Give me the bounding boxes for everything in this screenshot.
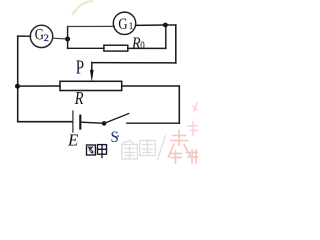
wire: G1 right lead: [136, 24, 166, 26]
wire: bottom run to battery: [18, 121, 73, 123]
wire: battery to switch: [81, 122, 104, 123]
wire: right rail down: [178, 86, 180, 123]
wire: R0 left lead: [68, 47, 104, 49]
galvanometer G1: [113, 12, 135, 34]
wire: left rail: [17, 36, 19, 122]
node A (junction dot): [65, 37, 70, 42]
svg-text:2: 2: [44, 34, 50, 44]
node C (junction dot on left rail): [15, 84, 20, 89]
wire: G2 left lead: [18, 35, 31, 37]
galvanometer G2: [30, 25, 52, 47]
wire: G2 to node A: [53, 37, 68, 40]
wire: switch right lead: [127, 122, 179, 124]
svg-text:S: S: [111, 129, 119, 147]
battery E: [67, 111, 80, 149]
svg-text:E: E: [67, 130, 79, 149]
wire: R0 branch vertical: [165, 25, 167, 48]
svg-text:P: P: [76, 55, 84, 77]
wire: riser at node A: [67, 27, 69, 49]
svg-text:1: 1: [129, 21, 134, 32]
wire: node C to rheostat R: [18, 85, 60, 87]
wire: R0 right lead: [128, 47, 166, 49]
svg-text:0: 0: [140, 40, 144, 52]
svg-text:G: G: [118, 16, 128, 34]
wire: wiper rail down: [175, 25, 177, 63]
rheostat R with wiper P: [60, 55, 122, 108]
wire: wiper horizontal run: [92, 62, 176, 64]
svg-text:R: R: [74, 90, 84, 109]
caption 图甲: [87, 145, 107, 158]
wire: top run to G1: [68, 25, 115, 27]
wire: R right lead: [122, 85, 180, 87]
resistor R0: [104, 34, 145, 52]
wire: node B to wiper rail: [165, 24, 175, 26]
node B (junction dot): [163, 23, 168, 28]
switch S: [102, 114, 129, 147]
